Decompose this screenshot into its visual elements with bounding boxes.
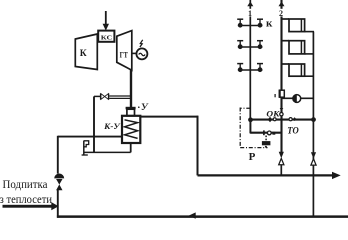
small valve on riser 2 [280, 108, 284, 116]
svg-text:К-У: К-У [103, 121, 121, 131]
svg-text:Подпитка: Подпитка [3, 177, 49, 191]
svg-text:1: 1 [248, 9, 252, 18]
svg-text:ТО: ТО [287, 126, 299, 136]
speck near exhaust label [138, 106, 140, 108]
impulse line from riser 1 [240, 108, 267, 148]
generator with lightning [132, 40, 148, 60]
check valve on riser 2 drop [279, 152, 284, 176]
control valve on bypass wire [264, 130, 275, 135]
make-up water wire (horizontal) [58, 136, 122, 138]
boiler coil zigzag [125, 120, 138, 139]
svg-text:ОК: ОК [266, 109, 280, 118]
circulation pump wire [282, 97, 314, 99]
node 1 label [247, 9, 254, 18]
riser 2 top arrow [279, 1, 285, 6]
check valve on return riser drop [311, 152, 316, 165]
node 2 label [278, 9, 285, 18]
water-seal flag symbol [82, 141, 89, 156]
node junction dot left [248, 117, 253, 122]
flue stub on boiler [127, 109, 135, 116]
riser 2 lower wire [280, 97, 282, 152]
svg-text:к: к [266, 17, 273, 29]
flue flange on boiler [126, 107, 136, 110]
gas turbine GT [117, 31, 132, 71]
waste-heat boiler K-U box [122, 116, 140, 143]
convector row 3 [237, 64, 263, 73]
gas bypass valve line [94, 93, 132, 99]
heating return wire (bottom) [57, 215, 348, 218]
bypass wire with control valve [251, 132, 283, 134]
convector riser 1 [249, 0, 251, 133]
wire below valve to return corner [57, 190, 59, 218]
mixing wire OK line [251, 119, 314, 121]
control valve actuator [262, 136, 271, 148]
combustion chamber KC box [98, 31, 114, 42]
svg-text:ГТ: ГТ [120, 49, 128, 59]
svg-text:КС: КС [101, 34, 113, 41]
gate valve above pump junction [275, 90, 284, 98]
exhaust duct from GT down [130, 70, 132, 107]
radiator riser 2 [280, 0, 282, 90]
supply flow arrowhead [332, 172, 341, 179]
bypass downcomer wire [93, 96, 95, 152]
node junction dot right [311, 117, 316, 122]
svg-text:К: К [80, 49, 87, 59]
radiator 2 [282, 41, 315, 54]
supply downcomer wire [197, 116, 199, 176]
hot water outlet wire [140, 116, 198, 118]
convector row 2 [237, 41, 263, 49]
make-up water wire (vertical) [57, 136, 59, 174]
compressor K [75, 34, 97, 70]
riser 1 top arrow [247, 1, 253, 6]
make-up inlet arrow [3, 202, 59, 210]
radiator 3 [282, 64, 315, 76]
svg-text:Р: Р [249, 151, 256, 163]
radiator 1 [282, 19, 315, 32]
riser 1 stub below node [250, 120, 252, 134]
make-up control valve with dome actuator [54, 174, 64, 191]
return riser wire [312, 32, 314, 217]
drain wire [84, 151, 131, 153]
convector row 1 [237, 19, 263, 27]
return flow arrowhead [189, 212, 196, 218]
svg-text:2: 2 [279, 9, 283, 18]
check valve OK on mixing wire [268, 117, 277, 122]
boiler drain stub [130, 143, 132, 152]
heating supply wire [198, 174, 334, 176]
svg-text:из теплосети: из теплосети [0, 192, 53, 206]
svg-text:У: У [141, 103, 149, 113]
circulation pump [293, 94, 301, 102]
fuel inlet arrow into combustion chamber [103, 11, 109, 31]
valve pair right of riser 2 [289, 117, 296, 121]
